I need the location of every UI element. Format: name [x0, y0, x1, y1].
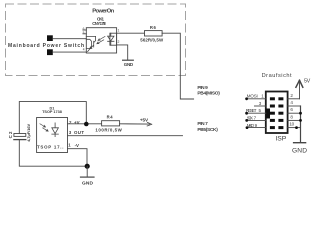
pin 6 stub	[83, 29, 86, 31]
light arrows	[97, 37, 105, 44]
junction +V node	[84, 122, 89, 127]
svg-text:CNY17III: CNY17III	[92, 21, 105, 26]
photodiode	[52, 123, 59, 137]
+5V supply arrow	[147, 122, 152, 126]
capacitor C2 plate -	[14, 139, 26, 141]
wire GND bus right	[300, 106, 302, 142]
svg-text:R6: R6	[150, 25, 157, 30]
wire pin3 row2 left	[255, 105, 266, 107]
resistor R6	[145, 31, 163, 36]
svg-text:MOSI: MOSI	[247, 94, 258, 99]
wire SCK row4 left	[247, 119, 266, 121]
svg-text:RESET: RESET	[246, 108, 257, 113]
wire pin10 row5 right	[288, 127, 301, 129]
wire lower pad to optocoupler pin 4	[53, 51, 87, 53]
ground D1	[81, 176, 95, 178]
svg-text:GND: GND	[82, 180, 94, 186]
svg-text:PowerOn: PowerOn	[92, 8, 114, 14]
LED box	[110, 33, 117, 45]
wire OUT to PIN7 stub	[68, 135, 183, 137]
phototransistor body	[86, 39, 91, 48]
pin pads right column	[278, 97, 283, 129]
svg-text:SCK: SCK	[247, 115, 254, 120]
svg-text:7: 7	[254, 115, 257, 120]
svg-text:4: 4	[290, 100, 293, 105]
junction ground node	[85, 164, 90, 169]
ground OK1	[123, 59, 134, 61]
wire MOSI row1 left	[247, 98, 266, 100]
wire R4 to +5V arrow	[120, 123, 150, 125]
LED symbol	[108, 33, 114, 45]
svg-text:GND: GND	[124, 62, 134, 67]
IR receiver D1 box	[37, 118, 68, 153]
svg-text:PIN 7: PIN 7	[197, 121, 208, 127]
pad Mainboard Power Switch lower	[47, 49, 53, 55]
svg-text:1: 1	[118, 29, 120, 33]
optocoupler OK1 outer box	[86, 28, 116, 53]
capacitor C2 plate +	[14, 134, 26, 137]
svg-text:2: 2	[290, 93, 293, 98]
wire RESET row3 left	[247, 112, 266, 114]
wire pin2 row1 right	[288, 98, 300, 100]
5V supply arrow	[299, 82, 301, 99]
wire C2 bottom to ground node	[19, 140, 87, 167]
svg-text:PIN 9: PIN 9	[197, 85, 208, 91]
pad Mainboard Power Switch upper	[47, 35, 53, 41]
phototransistor symbol	[86, 36, 95, 51]
svg-text:TSOP 17..: TSOP 17..	[37, 144, 64, 149]
wire +V to R4	[68, 123, 102, 125]
svg-text:562R/0,5W: 562R/0,5W	[140, 38, 164, 43]
svg-text:-V: -V	[75, 143, 79, 148]
svg-text:4,7µF/16V: 4,7µF/16V	[26, 123, 31, 141]
IR arrows	[40, 124, 48, 131]
svg-text:10: 10	[289, 122, 294, 127]
svg-text:Mainboard Power Switch: Mainboard Power Switch	[8, 43, 84, 49]
svg-text:+5V: +5V	[140, 118, 149, 123]
svg-text:3: 3	[259, 101, 262, 106]
svg-text:MISO: MISO	[247, 123, 255, 128]
junction pin6	[299, 112, 302, 115]
connector ISP box	[266, 92, 288, 134]
svg-text:1: 1	[68, 143, 71, 148]
wire pin6 row3 right	[288, 112, 301, 114]
wire pin4 row2 right	[288, 105, 301, 107]
svg-text:5V: 5V	[304, 79, 311, 85]
wire node to ground	[86, 166, 88, 177]
wire R6 to PIN9 stub	[162, 33, 194, 99]
svg-text:100R/0,5W: 100R/0,5W	[95, 127, 122, 132]
svg-text:1: 1	[261, 94, 264, 99]
pin pads left column	[270, 97, 275, 129]
svg-text:5: 5	[83, 31, 85, 35]
svg-text:4: 4	[83, 48, 85, 52]
svg-text:3: 3	[69, 130, 72, 135]
junction pin10	[295, 126, 298, 129]
svg-text:R4: R4	[107, 114, 114, 119]
wire C2 top to +V node	[19, 102, 86, 134]
wire pin1 to R6	[117, 32, 144, 34]
svg-text:Draufsicht: Draufsicht	[262, 73, 292, 79]
svg-text:TSOP 1738: TSOP 1738	[42, 110, 62, 114]
wire -V to ground node	[68, 149, 88, 167]
svg-text:PB5(SCK): PB5(SCK)	[197, 127, 218, 133]
svg-text:6: 6	[290, 107, 293, 112]
key notch bar	[266, 109, 270, 119]
pin 5 stub	[83, 33, 86, 35]
svg-text:OUT: OUT	[74, 130, 84, 135]
svg-text:2: 2	[118, 40, 120, 44]
svg-text:5: 5	[259, 108, 262, 113]
wire pin2 to ground	[117, 45, 128, 60]
ground ISP	[294, 142, 306, 144]
svg-text:ISP: ISP	[276, 135, 287, 142]
wire MISO row5 left	[247, 127, 266, 129]
svg-text:GND: GND	[292, 147, 307, 154]
PowerOn dashed frame	[6, 4, 186, 76]
svg-text:PB4(MISO): PB4(MISO)	[197, 91, 220, 97]
wire upper pad to optocoupler pin 5	[53, 38, 87, 40]
wire pin8 row4 right	[288, 119, 301, 121]
svg-text:8: 8	[290, 114, 293, 119]
svg-text:C2: C2	[8, 131, 13, 138]
junction pin8	[299, 119, 302, 122]
resistor R4	[102, 121, 120, 126]
